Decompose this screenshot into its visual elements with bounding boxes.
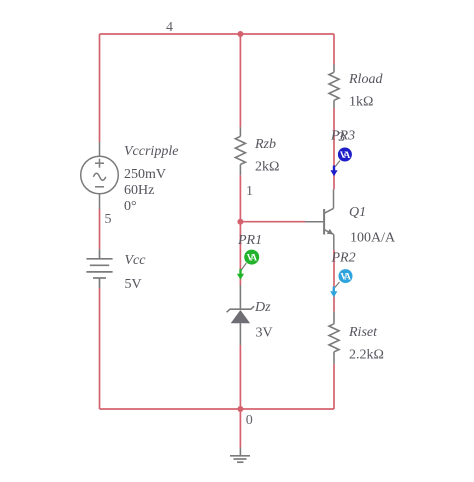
junction bottom net 0 [237,406,243,412]
wire left below battery [99,288,101,409]
svg-text:Vcc: Vcc [125,253,147,268]
svg-text:250mV: 250mV [124,167,166,182]
svg-text:Rload: Rload [348,72,383,87]
svg-text:100A/A: 100A/A [350,231,396,246]
svg-text:PR2: PR2 [331,251,356,266]
svg-text:1: 1 [246,184,253,199]
wire right branch above Rload [333,34,335,65]
svg-text:0: 0 [246,413,253,428]
ac source V1 Vccripple [81,142,119,209]
svg-text:4: 4 [166,20,173,35]
resistor Riset [329,312,339,364]
probe PR3 [330,148,352,177]
svg-text:60Hz: 60Hz [124,183,154,198]
wire left vertical upper [99,34,101,142]
wire ground stem [239,409,241,448]
transistor Q1 [305,189,334,250]
wire base net 1 horizontal [240,221,305,223]
wire left between source and battery [99,209,101,249]
wire bottom horizontal net 0 [100,408,335,410]
junction base net 1 [237,219,243,225]
resistor Rload [329,65,339,109]
zener diode Dz [227,285,255,345]
svg-text:1kΩ: 1kΩ [349,95,373,110]
wire middle branch Rzb to zener [239,175,241,285]
wire right branch below Riset [333,364,335,409]
probe PR1 [237,250,259,280]
svg-text:Rzb: Rzb [254,137,276,152]
junction top net 4 [237,31,243,37]
svg-text:0°: 0° [124,199,137,214]
svg-text:2kΩ: 2kΩ [255,160,279,175]
svg-text:Q1: Q1 [349,205,366,220]
svg-text:Riset: Riset [348,325,378,340]
resistor Rzb [235,127,245,175]
svg-text:PR1: PR1 [237,233,262,248]
svg-text:3V: 3V [256,326,273,341]
svg-text:Vccripple: Vccripple [124,144,178,159]
zener triangle [231,310,250,323]
wire right branch emitter to Riset [333,250,335,312]
svg-text:5: 5 [105,212,112,227]
wire top horizontal net 4 [100,33,335,35]
ground [230,448,250,463]
wire right branch Rload to collector [333,108,335,189]
wire middle branch below zener [239,345,241,409]
svg-text:3: 3 [338,130,345,145]
svg-text:2.2kΩ: 2.2kΩ [349,348,384,363]
wire middle branch above Rzb [239,34,241,127]
svg-text:Dz: Dz [254,300,271,315]
probe PR2 [330,269,352,297]
svg-text:5V: 5V [125,277,142,292]
battery Vcc [86,249,112,288]
emitter arrow of Q1 [327,229,334,235]
